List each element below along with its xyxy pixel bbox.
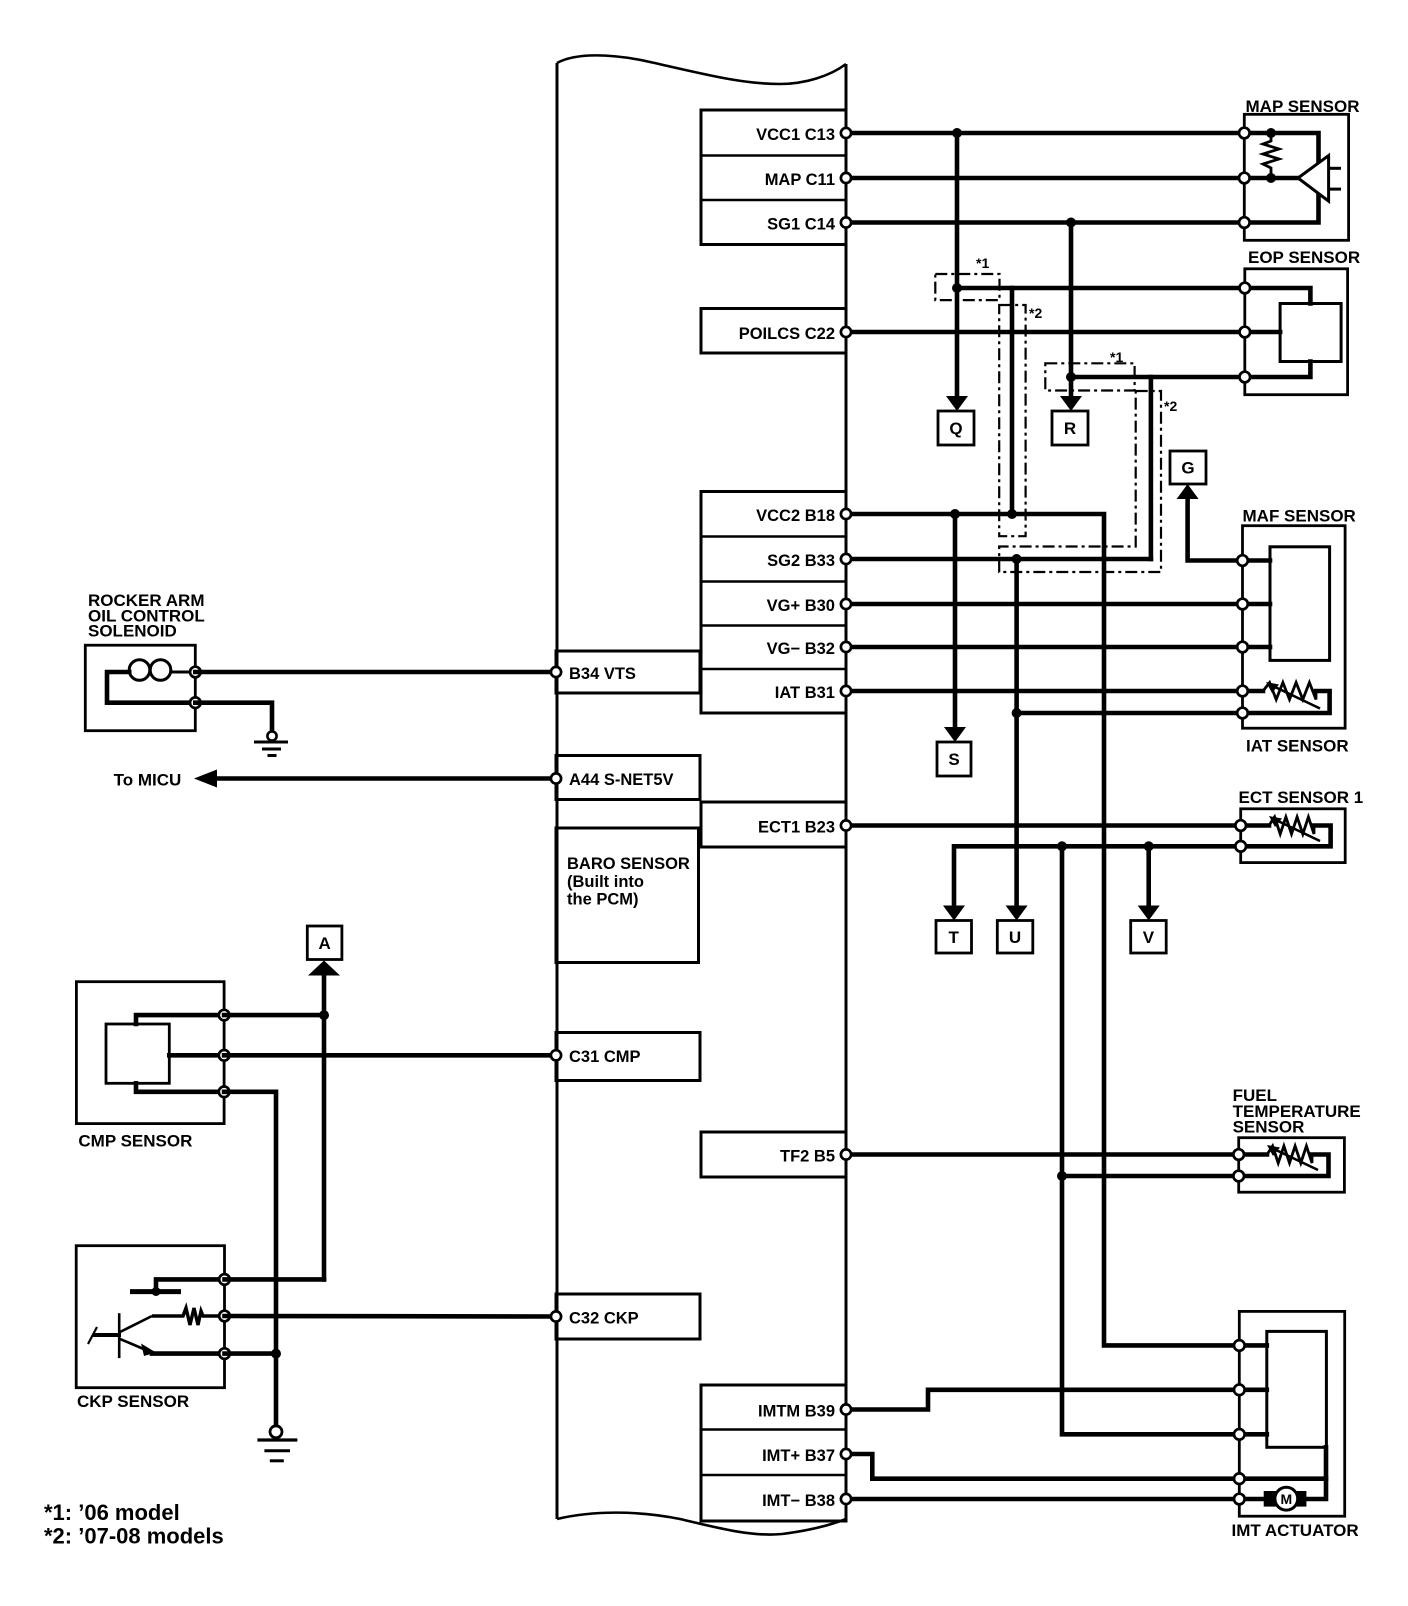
wire IMT+ B37 to IMT actuator xyxy=(846,1454,1326,1479)
svg-text:MAF SENSOR: MAF SENSOR xyxy=(1243,507,1356,526)
junction MAP resistor top xyxy=(1266,128,1276,138)
ECT sensor terminal 1 xyxy=(1235,820,1246,831)
PCM terminal right y=222.5 xyxy=(841,217,851,227)
CKP sensor lead 3 xyxy=(152,1351,225,1356)
ground symbol (solenoid) xyxy=(267,731,276,740)
PCM terminal right y=178 xyxy=(841,173,851,183)
MAP sensor terminal 1 xyxy=(1239,128,1250,139)
solenoid terminal 1 xyxy=(190,667,201,678)
junction ECT return/sensor ground xyxy=(1057,841,1067,851)
CMP sensor lead 2 xyxy=(169,1053,224,1058)
svg-text:the PCM): the PCM) xyxy=(567,891,639,909)
motor M circle xyxy=(1275,1487,1298,1510)
svg-text:SG1 C14: SG1 C14 xyxy=(767,216,836,234)
dash-dot shape *2 (07-08 models) EOP to SG2 xyxy=(999,391,1161,572)
PCM pin box C31 CMP xyxy=(556,1033,700,1081)
IMT actuator box xyxy=(1239,1311,1344,1516)
svg-text:M: M xyxy=(1280,1491,1292,1507)
MAF element lead 2 xyxy=(1243,602,1271,607)
MAP sensor output stub upper xyxy=(1329,167,1341,170)
wire SG1 C14 to MAP sensor xyxy=(846,220,1244,225)
wire IMTM B39 to IMT actuator xyxy=(846,1390,1267,1410)
junction VCC1/Q drop xyxy=(952,128,962,138)
junction VCC2/S drop xyxy=(950,509,960,519)
PCM pin box POILCS C22 xyxy=(701,309,846,354)
wire sensor ground to IMT actuator xyxy=(1062,846,1267,1434)
IAT sensor terminal 1 xyxy=(1237,686,1248,697)
PCM terminal right y=514 xyxy=(841,509,851,519)
PCM terminal left y=1055.3 xyxy=(551,1050,561,1060)
svg-text:*2: *2 xyxy=(1029,305,1042,321)
MAF sensor box xyxy=(1243,526,1346,729)
wire MAP C11 to MAP sensor xyxy=(846,176,1244,181)
fuel temperature sensor box xyxy=(1239,1138,1345,1193)
PCM terminal right y=691 xyxy=(841,686,851,696)
PCM pin box group VCC2/SG2/VG+/VG-/IAT xyxy=(701,492,846,714)
PCM pin box TF2 B5 xyxy=(701,1132,846,1177)
svg-text:Q: Q xyxy=(949,419,962,438)
connector T xyxy=(936,921,972,954)
solenoid coil loop 1 xyxy=(129,660,150,681)
rocker arm oil control solenoid box xyxy=(85,645,195,731)
wire solenoid to ground xyxy=(195,703,272,731)
MAF element lead 3 xyxy=(1243,645,1271,650)
motor brush block right xyxy=(1296,1491,1307,1507)
junction IAT return/U drop xyxy=(1012,708,1022,718)
svg-text:C31 CMP: C31 CMP xyxy=(569,1048,641,1066)
svg-text:CKP SENSOR: CKP SENSOR xyxy=(77,1392,189,1411)
junction *1 EOP/R drop xyxy=(1066,372,1076,382)
connector Q xyxy=(938,411,974,445)
svg-text:SG2 B33: SG2 B33 xyxy=(767,552,835,570)
svg-text:ECT SENSOR 1: ECT SENSOR 1 xyxy=(1239,788,1364,807)
wire CKP/CMP to connector A xyxy=(322,976,327,1279)
MAP sensor output stub lower xyxy=(1329,188,1341,191)
arrowhead into A xyxy=(308,961,340,976)
ECT thermistor return lead xyxy=(1241,826,1331,847)
IAT thermistor arrow xyxy=(1275,687,1320,709)
CKP sensor box xyxy=(76,1246,224,1388)
MAF sensor element xyxy=(1270,547,1330,661)
dash-dot box *1 (06 model) at SG1/EOP junction xyxy=(1045,363,1134,390)
IMT actuator terminal 2 xyxy=(1234,1385,1245,1396)
MAP sensor terminal 2 xyxy=(1239,173,1250,184)
wire *2 EOP to VCC2 xyxy=(1010,288,1015,514)
junction *2 EOP/VCC2 xyxy=(1007,509,1017,519)
EOP sensor terminal 1 xyxy=(1240,283,1251,294)
svg-text:VG+ B30: VG+ B30 xyxy=(767,597,835,615)
arrowhead into G xyxy=(1177,484,1199,499)
connector G xyxy=(1170,451,1206,484)
CMP sensor box xyxy=(76,982,224,1124)
svg-text:MAP C11: MAP C11 xyxy=(765,171,835,189)
PCM terminal right y=332 xyxy=(841,327,851,337)
svg-text:IMT+ B37: IMT+ B37 xyxy=(762,1447,835,1465)
PCM terminal right y=825.5 xyxy=(841,820,851,830)
ground symbol (CKP/CMP) xyxy=(270,1426,282,1438)
svg-text:C32 CKP: C32 CKP xyxy=(569,1310,639,1328)
CKP sensor terminal 1 xyxy=(219,1274,230,1285)
wire A44 S-NET5V to MICU xyxy=(217,776,556,781)
wire CMP terminal 3 to ground xyxy=(224,1092,276,1426)
MAF sensor terminal 3 xyxy=(1237,642,1248,653)
CKP lead 1 tip xyxy=(152,1287,161,1296)
CMP sensor terminal 2 xyxy=(219,1050,230,1061)
svg-text:*2: *2 xyxy=(1164,398,1177,414)
svg-text:*1: *1 xyxy=(976,255,989,271)
svg-text:G: G xyxy=(1181,459,1194,478)
solenoid coil lead left xyxy=(107,672,195,703)
wire CKP terminal 2 to C32 CKP xyxy=(225,1314,557,1319)
CMP sensor terminal 1 xyxy=(219,1010,230,1021)
wire VCC2 drop to connector S xyxy=(953,514,958,728)
PCM body right edge xyxy=(845,64,848,1520)
junction ECT return/V drop xyxy=(1144,841,1154,851)
svg-text:POILCS C22: POILCS C22 xyxy=(739,325,835,343)
fuel temp thermistor arrow xyxy=(1276,1150,1318,1170)
MAP sensor ground lead xyxy=(1244,194,1318,223)
junction *1 EOP/VCC1 drop xyxy=(952,283,962,293)
wire EOP sensor terminal 1 xyxy=(957,286,1244,291)
wire IMT- B38 to IMT actuator motor xyxy=(846,1497,1264,1502)
wire EOP sensor terminal 3 xyxy=(1071,375,1244,380)
MAP sensor signal lead xyxy=(1244,176,1299,181)
EOP sensor element xyxy=(1280,304,1341,362)
connector U xyxy=(997,921,1033,954)
IAT thermistor zigzag xyxy=(1263,683,1316,700)
CKP pickup core xyxy=(118,1313,121,1358)
IAT thermistor lead xyxy=(1243,689,1264,694)
PCM pin box A44 S-NET5V xyxy=(556,756,700,800)
svg-text:IAT B31: IAT B31 xyxy=(775,684,835,702)
wire VCC1 drop to connector Q xyxy=(955,133,960,397)
wire VG- B32 to MAF sensor xyxy=(846,645,1242,650)
EOP sensor terminal 2 xyxy=(1240,327,1251,338)
wire motor to IMT element xyxy=(1306,1447,1326,1499)
IMT actuator terminal 1 xyxy=(1234,1340,1245,1351)
EOP sensor lead 3 xyxy=(1245,362,1311,378)
solenoid coil loop 2 xyxy=(150,660,171,681)
wire CMP terminal 2 to C31 CMP xyxy=(224,1053,556,1058)
dash-dot box *1 (06 model) at VCC1/EOP junction xyxy=(935,274,999,300)
arrowhead into V xyxy=(1138,906,1160,921)
CKP pickup pole lead xyxy=(93,1333,121,1337)
CMP sensor lead 3 xyxy=(136,1083,224,1092)
wire fuel temperature sensor return xyxy=(1062,1174,1242,1179)
svg-text:VCC1 C13: VCC1 C13 xyxy=(756,126,835,144)
PCM terminal left y=672 xyxy=(551,667,561,677)
wire ECT1 B23 to ECT sensor 1 xyxy=(846,823,1242,828)
IAT thermistor return lead xyxy=(1243,691,1330,713)
PCM terminal right y=1154.5 xyxy=(841,1149,851,1159)
wire IAT sensor return xyxy=(1017,711,1242,716)
PCM terminal right y=604 xyxy=(841,599,851,609)
ECT thermistor arrow xyxy=(1278,821,1320,841)
svg-text:SOLENOID: SOLENOID xyxy=(88,622,177,641)
svg-text:A44 S-NET5V: A44 S-NET5V xyxy=(569,771,674,789)
svg-text:CMP SENSOR: CMP SENSOR xyxy=(78,1132,192,1151)
fuel temp thermistor lead xyxy=(1239,1152,1267,1157)
svg-text:ECT1 B23: ECT1 B23 xyxy=(758,819,835,837)
EOP sensor box xyxy=(1245,269,1348,395)
PCM terminal right y=647 xyxy=(841,642,851,652)
resistor in MAP sensor xyxy=(1263,133,1279,178)
svg-text:IMT− B38: IMT− B38 xyxy=(762,1492,835,1510)
junction CKP terminal 3/ground line xyxy=(271,1349,281,1359)
PCM terminal right y=1454 xyxy=(841,1449,851,1459)
connector V xyxy=(1131,921,1167,954)
CKP sensor terminal 3 xyxy=(219,1348,230,1359)
IMT actuator terminal 4 xyxy=(1234,1473,1245,1484)
svg-text:U: U xyxy=(1009,928,1021,947)
arrowhead into R xyxy=(1060,396,1082,411)
fuel temp thermistor zigzag xyxy=(1267,1146,1312,1163)
solenoid coil lead right xyxy=(171,671,195,674)
wire CMP terminal 1 to A line xyxy=(224,1013,324,1018)
PCM pin box ECT1 B23 xyxy=(701,802,846,847)
svg-text:T: T xyxy=(949,928,960,947)
wire ECT sensor return to T xyxy=(954,846,1242,905)
wire SG2 B33 xyxy=(846,557,1151,562)
connector R xyxy=(1052,411,1088,445)
EOP sensor terminal 3 xyxy=(1240,372,1251,383)
wire CKP terminal 3 to ground xyxy=(225,1351,277,1356)
IMT actuator terminal 5 xyxy=(1234,1494,1245,1505)
arrowhead into U xyxy=(1006,906,1028,921)
svg-text:IMTM B39: IMTM B39 xyxy=(758,1403,835,1421)
svg-text:R: R xyxy=(1064,419,1076,438)
junction CMP terminal 1/A line xyxy=(319,1010,329,1020)
svg-text:VCC2 B18: VCC2 B18 xyxy=(756,507,835,525)
MAP sensor box xyxy=(1244,114,1348,240)
arrowhead into Q xyxy=(946,396,968,411)
PCM terminal right y=133 xyxy=(841,128,851,138)
PCM terminal left y=778.5 xyxy=(551,773,561,783)
CKP pole bar xyxy=(130,1289,181,1294)
EOP sensor lead 1 xyxy=(1245,288,1311,304)
MAP sensor terminal 3 xyxy=(1239,217,1250,228)
svg-text:IMT ACTUATOR: IMT ACTUATOR xyxy=(1232,1521,1359,1540)
wire POILCS C22 to EOP sensor xyxy=(846,330,1244,335)
svg-text:*2: ’07-08 models: *2: ’07-08 models xyxy=(44,1524,224,1549)
ECT sensor 1 box xyxy=(1241,809,1346,863)
ECT sensor terminal 2 xyxy=(1235,841,1246,852)
wire TF2 B5 to fuel temperature sensor xyxy=(846,1152,1242,1157)
MAF element lead 1 xyxy=(1243,558,1271,563)
PCM terminal right y=1499 xyxy=(841,1494,851,1504)
svg-text:V: V xyxy=(1143,928,1155,947)
CKP coil resistor xyxy=(152,1308,225,1325)
fuel temp sensor terminal 2 xyxy=(1233,1171,1244,1182)
ECT thermistor zigzag xyxy=(1269,817,1314,834)
PCM body bottom torn edge xyxy=(557,1513,846,1535)
CKP coil lower branch xyxy=(120,1339,146,1350)
svg-text:TF2 B5: TF2 B5 xyxy=(780,1148,835,1166)
PCM terminal left y=1316.5 xyxy=(551,1311,561,1321)
junction fuel temp return/sensor ground xyxy=(1057,1171,1067,1181)
wire ECT return drop to connector V xyxy=(1146,846,1151,906)
CKP sensor terminal 2 xyxy=(219,1311,230,1322)
svg-text:EOP SENSOR: EOP SENSOR xyxy=(1248,248,1360,267)
PCM pin box group VCC1/MAP/SG1 xyxy=(701,110,846,245)
wire VCC2 B18 to IMT actuator xyxy=(846,514,1267,1345)
svg-text:*1: *1 xyxy=(1110,349,1123,365)
amplifier triangle in MAP sensor xyxy=(1298,156,1329,202)
EOP sensor lead 2 xyxy=(1245,330,1280,335)
fuel temp thermistor return lead xyxy=(1239,1155,1329,1177)
svg-text:B34 VTS: B34 VTS xyxy=(569,665,636,683)
svg-text:VG− B32: VG− B32 xyxy=(767,640,835,658)
IMT actuator element xyxy=(1267,1331,1327,1447)
IMT actuator terminal 3 xyxy=(1234,1429,1245,1440)
PCM BARO sensor box xyxy=(556,828,699,963)
svg-text:To MICU: To MICU xyxy=(114,771,182,790)
CMP sensor element xyxy=(106,1024,169,1083)
arrowhead into S xyxy=(944,727,966,742)
CMP sensor lead 1 xyxy=(136,1015,224,1024)
PCM terminal right y=1409.5 xyxy=(841,1404,851,1414)
arrowhead into T xyxy=(943,906,965,921)
svg-text:BARO SENSOR: BARO SENSOR xyxy=(567,855,690,873)
dash-dot box *2 (07-08 models) EOP to VCC2 xyxy=(999,305,1025,536)
wire SG2 drop to connector U xyxy=(1014,559,1019,906)
wire VCC1 C13 to MAP sensor xyxy=(846,131,1244,136)
wire solenoid to B34 VTS xyxy=(195,670,556,675)
connector A xyxy=(307,926,342,960)
PCM pin box B34 VTS xyxy=(556,651,700,693)
CKP lower branch arrowhead xyxy=(141,1344,156,1357)
arrowhead to MICU xyxy=(194,770,217,788)
PCM pin box C32 CKP xyxy=(556,1294,700,1339)
motor brush block left xyxy=(1264,1491,1277,1507)
MAF sensor terminal 2 xyxy=(1237,599,1248,610)
wire CKP terminal 1 to A line xyxy=(225,1277,325,1282)
svg-text:(Built into: (Built into xyxy=(567,873,644,891)
junction MAP resistor bottom xyxy=(1266,173,1276,183)
MAP sensor VCC lead xyxy=(1244,133,1318,163)
junction SG2/U drop xyxy=(1012,554,1022,564)
svg-text:*1: ’06 model: *1: ’06 model xyxy=(44,1500,180,1525)
IAT sensor terminal 2 xyxy=(1237,708,1248,719)
CKP sensor lead 1 xyxy=(156,1279,225,1291)
PCM body top torn edge xyxy=(557,55,846,84)
junction SG1/R drop xyxy=(1066,218,1076,228)
svg-text:S: S xyxy=(948,750,959,769)
svg-text:IAT SENSOR: IAT SENSOR xyxy=(1246,737,1349,756)
solenoid terminal 2 xyxy=(190,697,201,708)
PCM body left edge xyxy=(556,63,559,1519)
CMP sensor terminal 3 xyxy=(219,1087,230,1098)
wire MAF sensor to connector G xyxy=(1188,500,1242,561)
connector S xyxy=(937,742,971,776)
CKP pickup break tick xyxy=(88,1327,97,1344)
fuel temp sensor terminal 1 xyxy=(1233,1149,1244,1160)
wire SG1 drop to connector R xyxy=(1069,223,1074,398)
ECT thermistor lead xyxy=(1241,823,1269,828)
wire VG+ B30 to MAF sensor xyxy=(846,602,1242,607)
wire IAT B31 to IAT sensor xyxy=(846,689,1242,694)
PCM pin box group IMTM/IMT+/IMT- xyxy=(701,1385,846,1521)
svg-text:A: A xyxy=(318,934,330,953)
wire *2 EOP to SG2 xyxy=(1149,377,1154,559)
PCM terminal right y=559 xyxy=(841,554,851,564)
svg-text:SENSOR: SENSOR xyxy=(1233,1118,1305,1137)
MAF sensor terminal 1 xyxy=(1237,555,1248,566)
CKP coil upper branch xyxy=(120,1316,152,1332)
